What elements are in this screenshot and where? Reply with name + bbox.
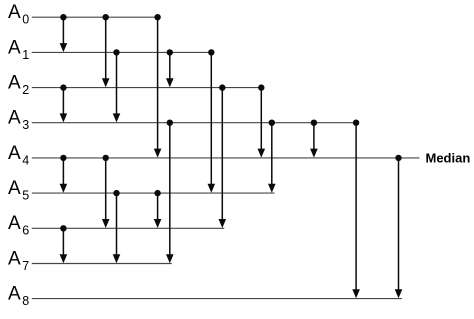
svg-text:A: A — [8, 143, 21, 164]
svg-text:5: 5 — [22, 189, 29, 203]
svg-text:0: 0 — [22, 13, 29, 27]
svg-text:6: 6 — [22, 224, 29, 238]
svg-text:A: A — [8, 73, 21, 94]
svg-text:3: 3 — [22, 118, 29, 132]
svg-text:7: 7 — [22, 259, 29, 273]
svg-text:A: A — [8, 37, 21, 58]
svg-text:A: A — [8, 284, 21, 305]
svg-text:A: A — [8, 2, 21, 23]
svg-text:1: 1 — [22, 48, 29, 62]
svg-text:A: A — [8, 213, 21, 234]
svg-text:4: 4 — [22, 153, 29, 167]
svg-text:A: A — [8, 108, 21, 129]
svg-text:2: 2 — [22, 83, 29, 97]
svg-text:8: 8 — [22, 294, 29, 308]
svg-text:Median: Median — [426, 151, 471, 166]
svg-text:A: A — [8, 178, 21, 199]
svg-text:A: A — [8, 248, 21, 269]
